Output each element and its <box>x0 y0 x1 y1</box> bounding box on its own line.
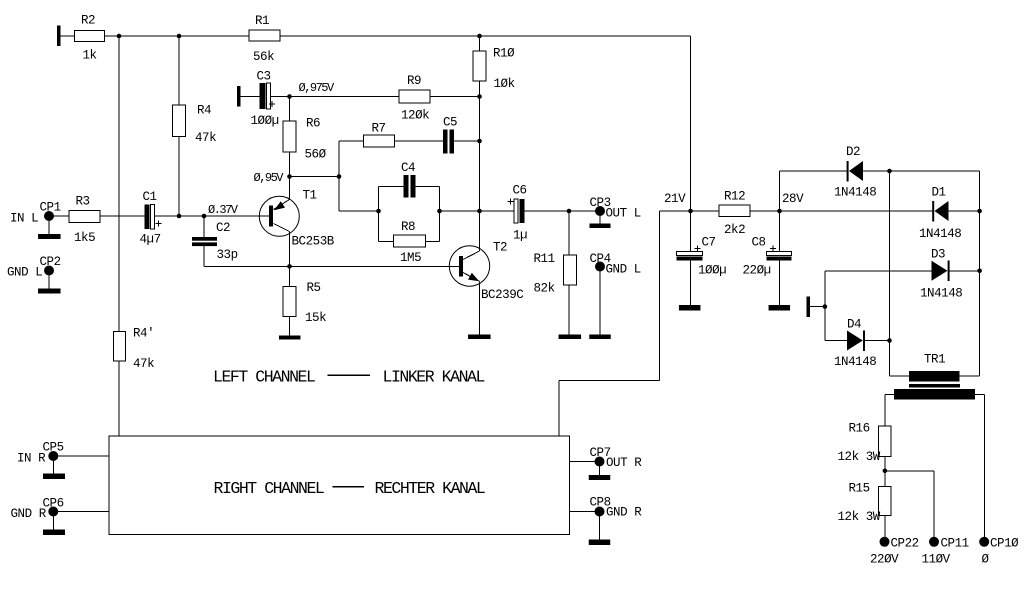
svg-text:CP2: CP2 <box>40 255 61 269</box>
node C2 / input row junction <box>202 214 207 219</box>
wire T1 emitter up to 0,95V node <box>289 177 291 200</box>
svg-text:33p: 33p <box>217 248 238 262</box>
resistor R9 <box>399 90 430 103</box>
wire 28V row to D1 <box>780 210 934 212</box>
svg-text:CP22: CP22 <box>891 537 919 551</box>
wire CP3 pad to ground <box>599 216 601 224</box>
wire top bus R1 to top-right corner <box>280 35 691 37</box>
resistor R3 <box>69 211 100 223</box>
wire left branch vertical down <box>659 211 661 381</box>
node feedback branch junction <box>337 174 342 179</box>
transformer TR1 core <box>909 384 960 388</box>
wire loop left vertical <box>378 187 380 242</box>
svg-text:GND R: GND R <box>11 507 47 521</box>
svg-text:15k: 15k <box>305 311 326 325</box>
ground bar C7 <box>679 305 701 311</box>
wire TR1 secondary right tap <box>975 393 984 395</box>
wire C3 terminal to C3 left plate <box>241 96 260 98</box>
wire C4 right plate to loop top right <box>416 186 440 188</box>
transistor T1 BC253B (PNP) <box>259 196 299 236</box>
svg-text:56k: 56k <box>253 50 274 64</box>
node output / R11 junction <box>567 209 572 214</box>
svg-text:OUT L: OUT L <box>606 207 641 221</box>
svg-text:47k: 47k <box>133 357 154 371</box>
svg-text:GND L: GND L <box>7 266 42 280</box>
resistor R2 <box>75 31 105 42</box>
wire R5 bottom to ground <box>289 317 291 336</box>
svg-text:C6: C6 <box>513 184 527 198</box>
wire D4 terminal to left column <box>810 306 825 308</box>
svg-text:47k: 47k <box>195 131 216 145</box>
svg-text:C4: C4 <box>401 161 415 175</box>
wire C8 bottom to ground <box>779 261 781 306</box>
wire 28V node up to D2 row <box>779 171 781 211</box>
wire 0,975V node to R9 <box>290 96 400 98</box>
svg-text:28V: 28V <box>782 192 804 206</box>
right channel block box <box>109 436 570 535</box>
svg-text:R5: R5 <box>307 281 321 295</box>
wire CP1 pad to ground bar <box>48 221 50 234</box>
svg-text:12k 3W: 12k 3W <box>838 510 881 524</box>
wire secondary left down to R16 <box>884 394 886 426</box>
wire from top bus down to R4 <box>178 36 180 105</box>
wire T1 collector down to R5 <box>289 232 291 287</box>
wire R6 bottom to 0,95V node <box>289 152 291 177</box>
ground bar CP6 <box>43 530 65 536</box>
wire D2 row to right column <box>863 170 980 172</box>
wire CP7 pad to ground bar <box>599 466 601 475</box>
node D4 terminal junction <box>823 304 828 309</box>
resistor R4 <box>173 105 186 137</box>
wire right column x=979.6 down to TR1 <box>979 171 981 376</box>
wire CP2 pad to ground bar <box>48 276 50 289</box>
svg-text:IN R: IN R <box>17 452 46 466</box>
node 28V junction <box>777 209 782 214</box>
svg-text:C8: C8 <box>752 236 766 250</box>
svg-text:C5: C5 <box>443 116 457 130</box>
wire 21V node down to C7 <box>690 211 692 252</box>
wire D2 row left segment <box>780 170 848 172</box>
wire R3 to C1 left plate <box>100 215 145 217</box>
input terminal top left <box>57 26 61 47</box>
plus sign of C1 <box>155 220 161 226</box>
plus sign of C8 <box>770 245 776 251</box>
capacitor C2 (33p) <box>192 237 217 246</box>
svg-text:11ØV: 11ØV <box>922 553 951 567</box>
ground bar CP7 <box>589 475 611 480</box>
svg-text:IN L: IN L <box>10 212 38 226</box>
svg-text:C3: C3 <box>257 70 271 84</box>
svg-text:T1: T1 <box>303 189 317 203</box>
wire feedback column R4' to right channel box <box>118 361 120 436</box>
capacitor C6 (electrolytic, right plate solid) <box>514 199 525 223</box>
svg-text:Ø: Ø <box>982 553 990 567</box>
svg-text:12Øk: 12Øk <box>401 109 429 123</box>
diode D4 1N4148 (pointing right) <box>847 331 865 352</box>
ground bar CP8 <box>589 540 611 546</box>
pad CP8 <box>595 507 605 517</box>
wire R7 to C5 <box>395 140 444 142</box>
wire feedback branch vertical x=339 <box>338 141 340 211</box>
ground bar C8 <box>769 305 791 311</box>
wire C7 bottom to ground <box>690 261 692 306</box>
svg-text:1k: 1k <box>83 49 97 63</box>
svg-text:OUT R: OUT R <box>606 456 642 470</box>
transformer TR1 primary winding <box>909 371 960 382</box>
svg-text:22Øµ: 22Øµ <box>743 264 771 278</box>
plus sign of C7 <box>694 245 700 251</box>
plus sign of C6 <box>507 198 513 204</box>
wire input node to T1 base <box>204 215 269 217</box>
wire top bus R2 to R1 through feedback and R4 taps <box>105 35 250 37</box>
wire 21V node left branch <box>660 210 691 212</box>
svg-text:2k2: 2k2 <box>724 223 745 237</box>
wire D4 to middle column <box>864 340 890 342</box>
svg-text:D3: D3 <box>931 248 945 262</box>
wire D3 to right column <box>948 270 980 272</box>
svg-text:1µ: 1µ <box>513 229 527 243</box>
resistor R1 <box>249 30 280 41</box>
node R16/R15/CP11 junction <box>883 469 888 474</box>
ground bar CP5 <box>43 474 65 480</box>
node D2 / middle column junction <box>887 169 892 174</box>
svg-text:1N4148: 1N4148 <box>920 287 962 301</box>
svg-text:1N4148: 1N4148 <box>834 186 876 200</box>
wire top bus right corner down to 21V node <box>690 36 692 211</box>
svg-text:1N4148: 1N4148 <box>919 227 961 241</box>
wire R11 bottom to ground <box>568 285 570 335</box>
wire R9 to collector column <box>430 96 480 98</box>
wire right channel box to CP8 pad <box>570 511 596 513</box>
wire C3 right plate to 0,975V node <box>271 96 290 98</box>
plus sign of C3 <box>269 101 275 107</box>
capacitor C3 (electrolytic) <box>260 83 271 109</box>
svg-text:CP1: CP1 <box>40 201 61 215</box>
svg-text:1N4148: 1N4148 <box>834 355 876 369</box>
svg-text:R7: R7 <box>372 122 386 136</box>
ground bar CP4 <box>589 335 611 340</box>
node top bus / feedback column <box>117 34 122 39</box>
wire CP6 pad to ground bar <box>52 516 54 530</box>
svg-text:BC253B: BC253B <box>292 235 335 249</box>
svg-text:R1: R1 <box>255 14 269 28</box>
wire CP4 pad to ground <box>599 271 601 335</box>
resistor R11 <box>564 255 577 285</box>
capacitor C5 <box>443 130 454 154</box>
node 0,975V junction <box>287 94 292 99</box>
svg-text:R1Ø: R1Ø <box>493 47 515 61</box>
resistor R7 <box>364 135 395 147</box>
node 0,95V junction <box>287 174 292 179</box>
capacitor C4 <box>404 175 416 198</box>
wire C6 right plate to CP3 pad <box>525 210 596 212</box>
svg-text:1k5: 1k5 <box>74 231 95 245</box>
resistor R10 <box>473 51 486 81</box>
resistor R12 <box>719 205 750 217</box>
wire R4 bottom to input node <box>178 137 180 217</box>
wire C2/T1 collector row to T2 base <box>204 265 459 267</box>
ground bar T2 emitter <box>468 335 491 340</box>
wire R16/R15 node to CP11 branch <box>885 470 934 472</box>
pad CP2 <box>44 266 54 276</box>
wire CP1 pad to R3 <box>54 215 70 217</box>
svg-text:R15: R15 <box>849 482 870 496</box>
svg-text:R3: R3 <box>76 195 90 209</box>
wire branch bottom to loop left node <box>339 210 379 212</box>
wire D3 row left segment <box>825 270 932 272</box>
wire D4 row left segment <box>825 340 847 342</box>
svg-text:D2: D2 <box>846 145 860 159</box>
wire T2 emitter down to ground <box>479 282 481 335</box>
svg-text:C1: C1 <box>143 190 157 204</box>
wire secondary right down to CP10 pad <box>983 394 985 537</box>
resistor R4' <box>114 332 126 362</box>
svg-text:T2: T2 <box>493 241 507 255</box>
svg-text:R8: R8 <box>401 220 415 234</box>
svg-text:LEFT CHANNEL: LEFT CHANNEL <box>213 368 315 387</box>
wire R10 bottom down collector column to output row <box>479 81 481 211</box>
wire loop right node to C6 left plate <box>440 210 515 212</box>
wire left branch horizontal jog <box>559 380 660 382</box>
svg-text:LINKER KANAL: LINKER KANAL <box>383 368 485 387</box>
svg-text:R9: R9 <box>407 74 421 88</box>
svg-text:R6: R6 <box>306 117 320 131</box>
svg-text:R12: R12 <box>724 190 745 204</box>
terminal at D4 node <box>807 297 811 318</box>
pad CP4 <box>595 262 605 272</box>
svg-text:GND L: GND L <box>606 263 641 277</box>
wire output node down to R11 <box>568 211 570 255</box>
svg-text:1ØØµ: 1ØØµ <box>251 114 279 128</box>
resistor R16 <box>879 426 892 457</box>
wire TR1 secondary left tap <box>885 393 894 395</box>
svg-text:12k 3W: 12k 3W <box>838 450 881 464</box>
wire 28V node down to C8 <box>779 211 781 252</box>
wire middle column to TR1 primary left <box>890 375 910 377</box>
svg-text:RIGHT CHANNEL: RIGHT CHANNEL <box>214 479 324 498</box>
resistor R8 <box>394 235 426 247</box>
wire to R7 <box>339 140 364 142</box>
svg-text:GND R: GND R <box>606 506 642 520</box>
svg-text:C7: C7 <box>702 236 716 250</box>
diode D2 1N4148 (pointing left) <box>847 161 863 182</box>
svg-text:R4': R4' <box>133 327 154 341</box>
ground bar CP3 <box>590 224 611 229</box>
svg-text:1ØØµ: 1ØØµ <box>698 264 726 278</box>
wire CP5 pad to ground bar <box>52 461 54 474</box>
node loop right junction <box>437 209 442 214</box>
capacitor C7 (electrolytic, horizontal) <box>677 252 703 261</box>
node loop left junction <box>376 209 381 214</box>
pad CP7 <box>595 457 605 467</box>
wire C5 to collector column <box>454 140 480 142</box>
wire D1 to right column <box>949 210 980 212</box>
ground bar CP2 <box>38 289 61 294</box>
svg-text:CP5: CP5 <box>43 441 64 455</box>
wire 0,975V node down to R6 <box>289 97 291 122</box>
transformer TR1 secondary winding <box>894 389 975 400</box>
pad CP22 <box>880 537 890 547</box>
capacitor C8 (electrolytic, horizontal) <box>767 252 792 261</box>
wire R15 to CP22 pad <box>884 516 886 538</box>
node D3 / right column junction <box>977 269 982 274</box>
wire C2 bottom plate down to base row <box>203 246 205 266</box>
svg-text:D1: D1 <box>932 186 946 200</box>
wire R12 to 28V node <box>750 210 780 212</box>
wire 0,95V node to feedback branch <box>290 176 340 178</box>
svg-text:56Ø: 56Ø <box>305 148 327 162</box>
svg-text:21V: 21V <box>664 192 686 206</box>
wire R16 to R15 <box>884 457 886 487</box>
wire R8 to loop bottom right <box>426 241 440 243</box>
wire right channel box to CP7 pad <box>570 461 596 463</box>
wire loop bottom to R8 <box>379 241 394 243</box>
wire feedback column x=119 from top bus down to R4' <box>118 36 120 332</box>
wire top supply bus from input terminal to R2 <box>61 35 75 37</box>
node 21V junction <box>688 209 693 214</box>
wire loop right vertical <box>439 187 441 242</box>
wire right column to TR1 primary right <box>960 375 980 377</box>
wire loop top to C4 left plate <box>379 186 404 188</box>
svg-text:22ØV: 22ØV <box>870 553 899 567</box>
pad CP11 <box>929 537 939 547</box>
node D4 / middle column junction <box>887 338 892 343</box>
node top bus / R10 <box>477 34 482 39</box>
svg-text:R2: R2 <box>81 14 95 28</box>
node R9 / R10 column <box>477 94 482 99</box>
svg-text:CP11: CP11 <box>941 537 969 551</box>
transistor T2 BC239C (NPN) <box>449 246 489 286</box>
capacitor C1 (electrolytic, left plate solid) <box>145 205 155 230</box>
pad CP1 <box>44 211 54 221</box>
diode D3 1N4148 (pointing right) <box>932 261 950 282</box>
ground bar CP1 <box>38 234 61 239</box>
node R4 / input row junction <box>177 214 182 219</box>
terminal at C3 <box>237 86 241 107</box>
svg-text:1M5: 1M5 <box>400 251 421 265</box>
ground bar R5 emitter <box>279 336 301 340</box>
dash between RIGHT CHANNEL and RECHTER KANAL <box>333 486 365 488</box>
node T1 collector / C2 row junction <box>287 264 292 269</box>
svg-text:Ø.37V: Ø.37V <box>208 203 239 217</box>
wire CP6 pad to right channel box <box>58 511 109 513</box>
pad CP5 <box>48 451 58 461</box>
svg-text:R4: R4 <box>197 104 211 118</box>
svg-text:R11: R11 <box>534 252 555 266</box>
wire left branch down to right channel box <box>558 381 560 437</box>
pad CP10 <box>979 537 989 547</box>
wire top bus tap down to R10 <box>479 36 481 51</box>
svg-text:Ø,975V: Ø,975V <box>299 81 336 95</box>
diode D1 1N4148 (pointing left) <box>932 201 948 222</box>
pad CP3 <box>595 206 605 216</box>
wire CP11 branch down to pad <box>933 471 935 538</box>
svg-text:BC239C: BC239C <box>481 288 523 302</box>
wire CP8 pad to ground bar <box>599 516 601 540</box>
resistor R6 <box>283 121 296 152</box>
ground bar R11 <box>559 335 582 340</box>
node collector column / output row <box>477 209 482 214</box>
wire CP5 pad to right channel box <box>58 455 109 457</box>
wire input node down to C2 top plate <box>203 216 205 237</box>
dash between LEFT CHANNEL and LINKER KANAL <box>328 374 371 376</box>
svg-text:RECHTER KANAL: RECHTER KANAL <box>375 479 485 498</box>
svg-text:D4: D4 <box>847 318 861 332</box>
wire T2 collector up to output row <box>479 211 481 251</box>
resistor R5 <box>283 287 296 317</box>
wire D3/D4 left column <box>824 271 826 341</box>
wire 21V node to R12 <box>691 210 720 212</box>
resistor R15 <box>879 487 892 516</box>
svg-text:82k: 82k <box>534 282 555 296</box>
node D1 / right column junction <box>977 209 982 214</box>
svg-text:TR1: TR1 <box>924 353 945 367</box>
node C5 / collector column <box>477 139 482 144</box>
svg-text:CP1Ø: CP1Ø <box>990 537 1019 551</box>
svg-text:4µ7: 4µ7 <box>140 233 161 247</box>
wire middle column x=889.5 D2 node down to TR1 <box>889 171 891 376</box>
svg-text:1Øk: 1Øk <box>494 77 515 91</box>
wire C1 right plate to input node <box>155 215 205 217</box>
svg-text:Ø,95V: Ø,95V <box>254 171 285 185</box>
node top bus / R4 column <box>177 34 182 39</box>
pad CP6 <box>48 507 58 517</box>
svg-text:R16: R16 <box>849 422 870 436</box>
svg-text:C2: C2 <box>216 221 230 235</box>
